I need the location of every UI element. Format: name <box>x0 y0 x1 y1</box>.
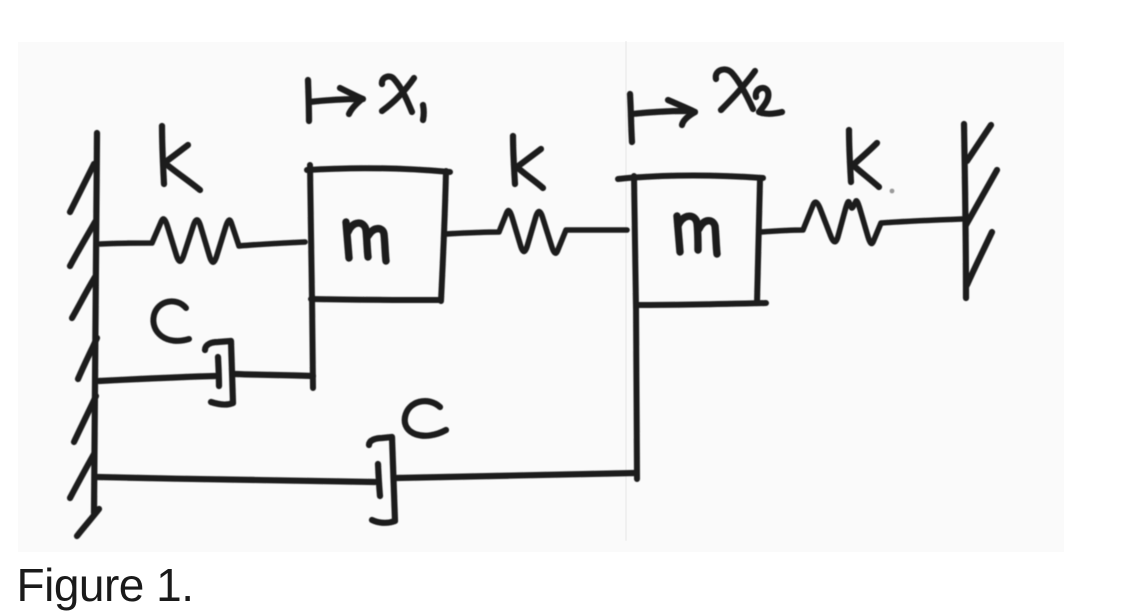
damper c2 rod from wall <box>97 477 375 482</box>
damper c2 cylinder <box>369 437 395 523</box>
wire from mass 2 down to damper c2 <box>636 304 637 479</box>
label k (spring k2) <box>513 136 543 188</box>
svg-text:Figure 1.: Figure 1. <box>17 559 194 611</box>
paper panel <box>18 42 1064 552</box>
mass m1 box <box>307 165 450 301</box>
damper c2 rod to mass 2 drop link <box>396 473 636 478</box>
label c (damper c1) <box>153 301 189 340</box>
label x2 <box>716 69 782 113</box>
label k (spring k1) <box>162 126 200 190</box>
mass m2 box <box>618 176 766 309</box>
label m (mass 2) <box>677 216 717 254</box>
label c (damper c2) <box>405 401 446 436</box>
damper c1 rod from wall <box>99 376 215 381</box>
damper c1 rod to mass 1 drop link <box>235 374 313 376</box>
spring k2 (mass 1 to mass 2) <box>446 211 627 253</box>
damper c2 (left wall to mass 2) <box>97 437 636 523</box>
damper c1 cylinder <box>205 341 233 405</box>
spring k3 (mass 2 to right wall) <box>761 201 962 244</box>
left wall <box>70 133 99 536</box>
label k (spring k3) <box>849 130 879 187</box>
label x1 <box>382 77 424 120</box>
damper c2 piston plate <box>378 464 380 496</box>
damper c1 (left wall to mass 1) <box>99 341 313 405</box>
wire from mass 1 down to damper c1 <box>312 296 313 388</box>
damper c1 piston plate <box>218 357 219 386</box>
displacement arrow x1 <box>308 80 363 121</box>
label m (mass 1) <box>346 222 386 261</box>
spring k1 (left wall to mass 1) <box>100 219 305 262</box>
displacement arrow x2 <box>630 94 695 142</box>
right wall <box>964 124 997 298</box>
